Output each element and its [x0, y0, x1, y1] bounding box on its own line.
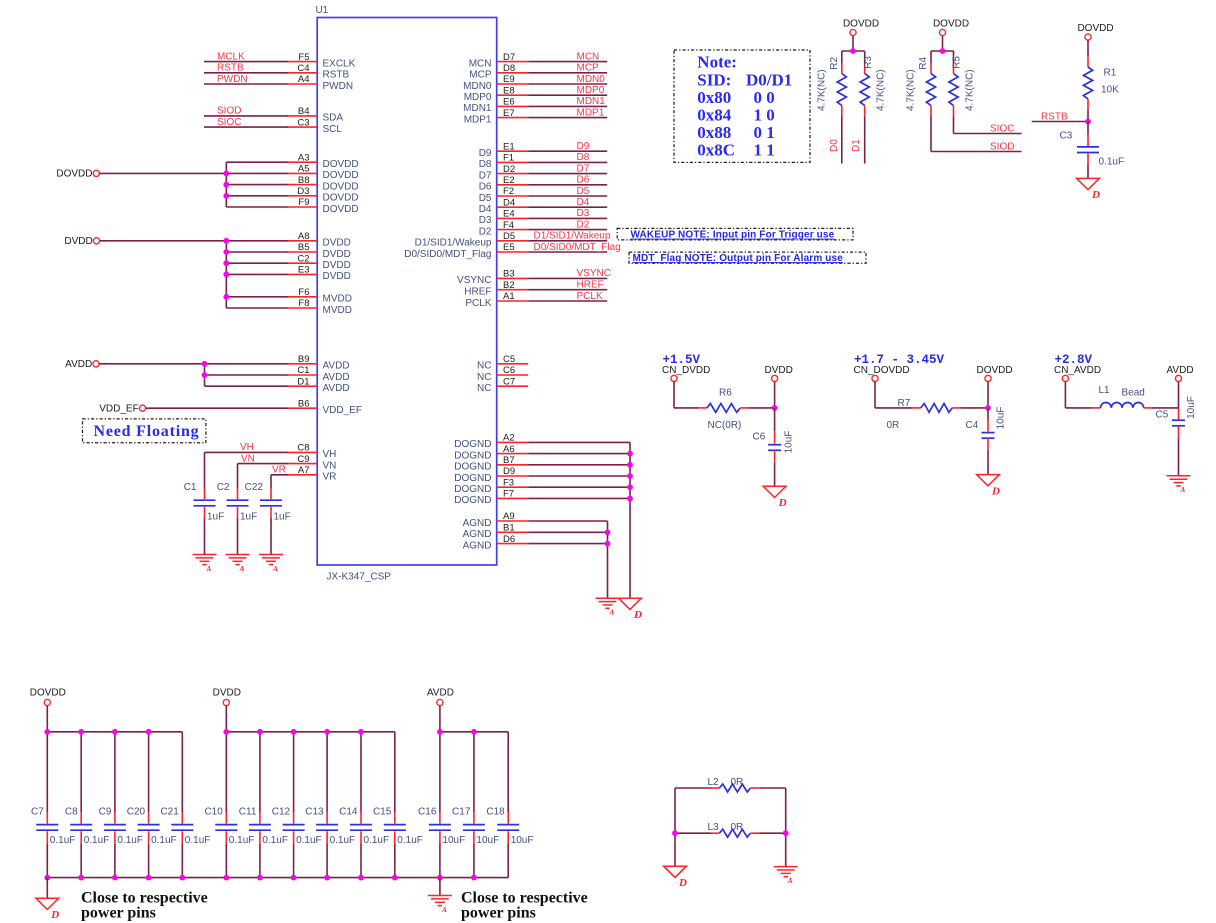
svg-text:0R: 0R — [887, 420, 900, 431]
svg-text:C8: C8 — [65, 807, 78, 818]
junction DOGND — [627, 462, 633, 468]
svg-text:NC: NC — [477, 361, 491, 372]
power port VDD_EF — [139, 405, 145, 411]
wire DOVDD branch — [226, 195, 288, 197]
svg-text:F3: F3 — [503, 477, 514, 488]
pin A3 DOVDD (left) — [287, 161, 317, 163]
power port DOVDD (left) — [93, 170, 99, 176]
svg-text:C13: C13 — [305, 807, 324, 818]
pin F7 DOGND (right) — [497, 497, 529, 499]
wire DOVDD to R1 — [1087, 40, 1089, 56]
wire CN_DVDD down — [673, 382, 675, 408]
junction DOGND — [627, 473, 633, 479]
junction bank bottom — [179, 875, 185, 881]
junction bank top — [146, 729, 152, 735]
svg-text:A2: A2 — [503, 433, 515, 444]
junction bank bottom — [257, 875, 263, 881]
capacitor C4 10uF — [987, 408, 989, 420]
svg-text:B5: B5 — [298, 242, 310, 253]
junction bank top — [112, 729, 118, 735]
wire + net D2 — [528, 229, 607, 231]
svg-text:E8: E8 — [503, 85, 515, 96]
wire + net PCLK — [528, 300, 607, 302]
capacitor C14 0.1uF — [360, 732, 362, 812]
junction DOVDD — [223, 171, 229, 177]
wire R6 to junction — [740, 407, 749, 409]
resistor R7 0R — [921, 404, 953, 413]
junction R4/R5 — [940, 48, 946, 54]
svg-text:NC(0R): NC(0R) — [708, 420, 742, 431]
pin F3 DOGND (right) — [497, 486, 529, 488]
svg-text:A5: A5 — [298, 164, 310, 175]
pin E5 D0/SID0/MDT_Flag (right) — [497, 251, 529, 253]
svg-text:A: A — [206, 565, 212, 573]
pin C4 RSTB (left) — [287, 72, 317, 74]
svg-text:MDN1: MDN1 — [463, 103, 492, 114]
junction DOGND — [627, 496, 633, 502]
svg-text:DVDD: DVDD — [765, 365, 793, 376]
svg-text:SCL: SCL — [323, 124, 343, 135]
svg-text:D3: D3 — [479, 215, 492, 226]
svg-text:AVDD: AVDD — [323, 372, 350, 383]
pin B9 AVDD (left) — [287, 363, 317, 365]
svg-text:DOVDD: DOVDD — [323, 204, 359, 215]
wire VN down to C2 — [237, 464, 239, 489]
svg-text:VR: VR — [323, 472, 337, 483]
wire + net D7 — [528, 173, 607, 175]
svg-text:D9: D9 — [503, 466, 515, 477]
wire DOVDD branch — [226, 184, 288, 186]
wire DVDD down — [774, 382, 776, 408]
svg-text:D1/SID1/Wakeup: D1/SID1/Wakeup — [415, 238, 492, 249]
wire AVDD branch — [205, 363, 289, 365]
svg-text:1uF: 1uF — [274, 512, 291, 523]
svg-text:E1: E1 — [503, 141, 515, 152]
junction DVDD — [223, 260, 229, 266]
svg-text:SIOC: SIOC — [217, 117, 241, 128]
junction AVDD — [202, 361, 208, 367]
bank bottom rail — [47, 877, 508, 879]
svg-text:D1: D1 — [297, 376, 309, 387]
svg-text:0x8C: 0x8C — [697, 141, 735, 160]
junction L3 left — [672, 830, 678, 836]
svg-text:F1: F1 — [503, 153, 514, 164]
svg-text:RSTB: RSTB — [323, 70, 350, 81]
svg-text:A6: A6 — [503, 444, 515, 455]
wire + net MCP — [528, 72, 607, 74]
svg-text:1uF: 1uF — [240, 512, 257, 523]
svg-text:R1: R1 — [1104, 68, 1117, 79]
svg-text:DOVDD: DOVDD — [1077, 23, 1113, 34]
wire R4 to SIOD — [930, 117, 932, 152]
svg-text:DOVDD: DOVDD — [323, 181, 359, 192]
pin E7 MDP1 (right) — [497, 117, 529, 119]
svg-text:MCN: MCN — [577, 51, 600, 62]
svg-text:C7: C7 — [503, 376, 515, 387]
capacitor C10 0.1uF — [225, 732, 227, 812]
resistor R6 NC(0R) — [707, 404, 741, 413]
svg-text:E4: E4 — [503, 209, 515, 220]
svg-text:0x88: 0x88 — [697, 123, 731, 142]
wire L1 to corner — [1144, 407, 1152, 409]
junction bank top — [257, 729, 263, 735]
svg-text:C17: C17 — [452, 807, 471, 818]
capacitor C20 0.1uF — [148, 732, 150, 812]
svg-text:DVDD: DVDD — [323, 249, 351, 260]
svg-text:D8: D8 — [479, 159, 492, 170]
pin D3 DOVDD (left) — [287, 195, 317, 197]
svg-text:C22: C22 — [245, 482, 264, 493]
svg-text:VDD_EF: VDD_EF — [323, 405, 362, 416]
svg-text:D2: D2 — [479, 226, 492, 237]
capacitor C9 0.1uF — [114, 732, 116, 812]
pin C6 NC (right) — [497, 374, 529, 376]
svg-text:A1: A1 — [503, 291, 515, 302]
svg-text:SIOD: SIOD — [990, 141, 1014, 152]
svg-text:PWDN: PWDN — [217, 74, 248, 85]
junction bank top — [44, 729, 50, 735]
svg-text:0.1uF: 0.1uF — [151, 835, 177, 846]
svg-text:DOGND: DOGND — [454, 495, 491, 506]
pin C9 VN (left) — [287, 463, 317, 465]
svg-text:DOVDD: DOVDD — [323, 193, 359, 204]
svg-text:C3: C3 — [297, 117, 309, 128]
R4/R5 top bar — [931, 50, 954, 52]
pin E3 DVDD (left) — [287, 273, 317, 275]
pin B4 SDA (left) — [287, 115, 317, 117]
svg-text:0.1uF: 0.1uF — [330, 835, 356, 846]
pin E1 D9 (right) — [497, 150, 529, 152]
svg-text:VH: VH — [323, 449, 337, 460]
svg-text:D2: D2 — [577, 219, 590, 230]
wire to R6 — [674, 407, 698, 409]
svg-text:B3: B3 — [503, 269, 515, 280]
wire DVDD branch — [226, 296, 288, 298]
svg-text:DOGND: DOGND — [454, 450, 491, 461]
svg-text:R5: R5 — [952, 56, 963, 69]
junction R6/DVDD/C6 — [772, 405, 778, 411]
svg-text:A: A — [441, 906, 447, 914]
analog ground (AGND) — [596, 597, 620, 599]
svg-text:10K: 10K — [1101, 85, 1119, 96]
svg-text:U1: U1 — [316, 5, 329, 16]
wire CN_AVDD down — [1064, 382, 1066, 408]
svg-text:E2: E2 — [503, 175, 515, 186]
svg-text:D2: D2 — [503, 164, 515, 175]
svg-text:1 0: 1 0 — [754, 106, 775, 125]
svg-text:DOGND: DOGND — [454, 484, 491, 495]
svg-text:NC: NC — [477, 372, 491, 383]
svg-text:D5: D5 — [503, 231, 515, 242]
svg-text:0.1uF: 0.1uF — [229, 835, 255, 846]
svg-text:F6: F6 — [298, 287, 309, 298]
svg-text:WAKEUP NOTE: Input pin For Tri: WAKEUP NOTE: Input pin For Trigger use — [631, 230, 835, 241]
svg-text:AGND: AGND — [463, 529, 492, 540]
DVDD vertical bus — [225, 241, 227, 308]
junction DVDD — [223, 294, 229, 300]
svg-text:F9: F9 — [298, 197, 309, 208]
svg-text:VH: VH — [240, 442, 254, 453]
wire DOVDD to R2/R3 bar — [852, 36, 854, 51]
svg-text:AVDD: AVDD — [323, 361, 350, 372]
junction bank top — [223, 729, 229, 735]
wire + net MDP0 — [528, 94, 607, 96]
pin C3 SCL (left) — [287, 126, 317, 128]
svg-text:1 1: 1 1 — [754, 141, 775, 160]
svg-text:E9: E9 — [503, 74, 515, 85]
svg-text:VSYNC: VSYNC — [577, 268, 611, 279]
wire AVDD port to bus — [99, 363, 204, 365]
svg-text:CN_AVDD: CN_AVDD — [1054, 365, 1101, 376]
wire L2 left — [675, 787, 711, 789]
svg-text:C6: C6 — [753, 432, 766, 443]
svg-text:D9: D9 — [577, 141, 590, 152]
svg-text:MDP1: MDP1 — [577, 107, 605, 118]
power port AVDD (left) — [93, 361, 99, 367]
svg-text:10uF: 10uF — [476, 835, 499, 846]
svg-text:10uF: 10uF — [1186, 396, 1197, 419]
svg-text:SIOD: SIOD — [217, 106, 241, 117]
junction R2/R3 — [850, 48, 856, 54]
svg-text:A: A — [1180, 486, 1186, 494]
junction DOVDD — [223, 193, 229, 199]
DVDD bank top rail — [226, 731, 394, 733]
pin F2 D5 (right) — [497, 195, 529, 197]
svg-text:D: D — [50, 909, 59, 921]
svg-text:0.1uF: 0.1uF — [364, 835, 390, 846]
svg-text:C2: C2 — [297, 253, 309, 264]
svg-text:MDP0: MDP0 — [464, 92, 492, 103]
svg-text:4.7K(NC): 4.7K(NC) — [876, 69, 887, 111]
svg-text:R4: R4 — [918, 56, 929, 69]
junction bank bottom — [471, 875, 477, 881]
wire VDD_EF — [146, 407, 289, 409]
svg-text:4.7K(NC): 4.7K(NC) — [817, 69, 828, 111]
svg-text:DVDD: DVDD — [323, 238, 351, 249]
junction bank bottom — [437, 875, 443, 881]
pin F8 MVDD (left) — [287, 307, 317, 309]
svg-text:4.7K(NC): 4.7K(NC) — [906, 69, 917, 111]
svg-text:C9: C9 — [297, 454, 309, 465]
pin E4 D3 (right) — [497, 217, 529, 219]
wire DVDD down to rail — [225, 706, 227, 732]
svg-text:B4: B4 — [298, 106, 310, 117]
pin B8 DOVDD (left) — [287, 184, 317, 186]
junction DVDD — [223, 272, 229, 278]
wire net RSTB — [1032, 121, 1088, 123]
pin F5 EXCLK (left) — [287, 61, 317, 63]
svg-text:AVDD: AVDD — [427, 687, 454, 698]
capacitor C3 0.1uF — [1087, 122, 1089, 135]
wire + net D9 — [528, 150, 607, 152]
pin E6 MDN1 (right) — [497, 105, 529, 107]
capacitor C16 10uF — [439, 732, 441, 812]
wire + net MCN — [528, 61, 607, 63]
svg-text:C5: C5 — [503, 354, 515, 365]
svg-text:DOVDD: DOVDD — [977, 365, 1013, 376]
wire to analog ground — [237, 518, 239, 555]
wire DOVDD down — [987, 382, 989, 408]
svg-text:D: D — [991, 485, 1000, 497]
junction bank bottom — [146, 875, 152, 881]
wire DOVDD down to rail — [46, 706, 48, 732]
pin A2 DOGND (right) — [497, 441, 529, 443]
svg-text:B7: B7 — [503, 455, 515, 466]
svg-text:DOVDD: DOVDD — [56, 169, 92, 180]
pin D6 AGND (right) — [497, 543, 529, 545]
digital ground (C6) — [763, 486, 786, 497]
svg-text:D4: D4 — [503, 197, 515, 208]
svg-text:R6: R6 — [719, 387, 732, 398]
pin D4 D4 (right) — [497, 206, 529, 208]
svg-text:0 1: 0 1 — [754, 123, 775, 142]
svg-text:D0/D1: D0/D1 — [746, 70, 792, 89]
pin B6 VDD_EF (left) — [287, 407, 317, 409]
pin C7 NC (right) — [497, 385, 529, 387]
DOGND wires to bus — [528, 441, 630, 443]
svg-text:0.1uF: 0.1uF — [84, 835, 110, 846]
pin A5 DOVDD (left) — [287, 172, 317, 174]
svg-text:VDD_EF: VDD_EF — [99, 403, 138, 414]
svg-text:CN_DOVDD: CN_DOVDD — [854, 365, 910, 376]
wire CN_DOVDD down — [874, 382, 876, 408]
svg-text:power pins: power pins — [461, 905, 536, 922]
svg-text:DOGND: DOGND — [454, 462, 491, 473]
svg-text:B2: B2 — [503, 280, 515, 291]
op-amp U1 body JX-K347_CSP — [317, 18, 497, 566]
wire + net D6 — [528, 184, 607, 186]
pin D7 MCN (right) — [497, 61, 529, 63]
wire to L1 — [1065, 407, 1091, 409]
wire C6 to ground — [774, 463, 776, 487]
resistor L2 0R — [719, 784, 750, 792]
capacitor C6 10uF — [774, 408, 776, 431]
junction DOGND — [627, 484, 633, 490]
pin D8 MCP (right) — [497, 72, 529, 74]
svg-text:MDP0: MDP0 — [577, 85, 605, 96]
svg-text:B6: B6 — [298, 398, 310, 409]
wire R5 to SIOC — [953, 117, 955, 134]
digital ground (DOGND) — [619, 598, 642, 609]
svg-text:0R: 0R — [731, 777, 744, 788]
svg-text:DVDD: DVDD — [64, 236, 92, 247]
svg-text:MCP: MCP — [577, 63, 600, 74]
svg-text:0.1uF: 0.1uF — [397, 835, 423, 846]
wire + net PWDN — [204, 83, 288, 85]
svg-text:MCP: MCP — [469, 70, 492, 81]
svg-text:C1: C1 — [184, 482, 197, 493]
wire AVDD down — [1178, 382, 1180, 408]
right vertical (L2/L3) — [785, 788, 787, 867]
pin A4 PWDN (left) — [287, 83, 317, 85]
svg-text:MDP1: MDP1 — [464, 114, 492, 125]
wire + net D8 — [528, 161, 607, 163]
DOVDD bank top rail — [47, 731, 182, 733]
svg-text:MDT_Flag NOTE: Output pin For: MDT_Flag NOTE: Output pin For Alarm use — [633, 253, 844, 264]
pin A6 DOGND (right) — [497, 453, 529, 455]
svg-text:Note:: Note: — [697, 53, 737, 72]
junction DVDD — [223, 249, 229, 255]
svg-text:C4: C4 — [966, 420, 979, 431]
pin B3 VSYNC (right) — [497, 277, 529, 279]
pin A7 VR (left) — [287, 474, 317, 476]
AGND vertical bus — [607, 521, 609, 598]
svg-text:AVDD: AVDD — [323, 383, 350, 394]
resistor R5 4.7K(NC) — [953, 51, 955, 63]
junction RSTB/R1/C3 — [1085, 119, 1091, 125]
svg-text:R7: R7 — [898, 398, 911, 409]
pin A8 DVDD (left) — [287, 240, 317, 242]
wire DOVDD port to bus — [99, 172, 226, 174]
svg-text:4.7K(NC): 4.7K(NC) — [965, 69, 976, 111]
svg-text:C4: C4 — [297, 63, 309, 74]
digital ground (L2/L3) — [664, 866, 687, 877]
AGND wires to bus — [528, 520, 607, 522]
wire DVDD branch — [226, 273, 288, 275]
svg-text:F5: F5 — [298, 52, 309, 63]
svg-text:D7: D7 — [577, 163, 590, 174]
pin E9 MDN0 (right) — [497, 83, 529, 85]
svg-text:Bead: Bead — [1122, 388, 1145, 399]
svg-text:C6: C6 — [503, 365, 515, 376]
wire R7 to junction — [952, 407, 961, 409]
svg-text:0.1uF: 0.1uF — [1099, 157, 1125, 168]
svg-text:C18: C18 — [486, 807, 505, 818]
pin E8 MDP0 (right) — [497, 94, 529, 96]
pin E2 D6 (right) — [497, 184, 529, 186]
capacitor C8 0.1uF — [80, 732, 82, 812]
capacitor C17 10uF — [473, 732, 475, 812]
wire to analog ground — [270, 518, 272, 555]
wire DVDD branch — [226, 262, 288, 264]
svg-text:F2: F2 — [503, 186, 514, 197]
svg-text:D6: D6 — [577, 175, 590, 186]
capacitor C18 10uF — [507, 732, 509, 812]
digital ground (bank) — [36, 898, 59, 909]
svg-text:C3: C3 — [1060, 131, 1073, 142]
svg-text:power pins: power pins — [81, 905, 156, 922]
svg-text:DVDD: DVDD — [213, 687, 241, 698]
svg-text:C21: C21 — [160, 807, 179, 818]
junction bank bottom — [112, 875, 118, 881]
wire DOVDD branch — [226, 161, 288, 163]
wire + net HREF — [528, 289, 607, 291]
svg-text:10uF: 10uF — [442, 835, 465, 846]
wire + net D0/SID0/MDT_Flag — [528, 251, 607, 253]
svg-text:0.1uF: 0.1uF — [117, 835, 143, 846]
wire to R7 — [875, 407, 912, 409]
svg-text:CN_DVDD: CN_DVDD — [662, 365, 710, 376]
svg-text:B8: B8 — [298, 175, 310, 186]
wire AVDD down to rail — [439, 706, 441, 732]
svg-text:C16: C16 — [418, 807, 437, 818]
svg-text:A3: A3 — [298, 152, 310, 163]
svg-text:HREF: HREF — [464, 287, 491, 298]
svg-text:0.1uF: 0.1uF — [262, 835, 288, 846]
analog ground — [193, 554, 217, 556]
svg-text:Need Floating: Need Floating — [94, 423, 200, 440]
analog ground — [226, 554, 250, 556]
svg-text:PWDN: PWDN — [323, 81, 354, 92]
svg-text:D0/SID0/MDT_Flag: D0/SID0/MDT_Flag — [534, 242, 621, 253]
svg-text:D1/SID1/Wakeup: D1/SID1/Wakeup — [534, 231, 611, 242]
pin B5 DVDD (left) — [287, 251, 317, 253]
svg-text:D8: D8 — [503, 63, 515, 74]
junction AGND — [605, 541, 611, 547]
svg-text:MVDD: MVDD — [323, 305, 352, 316]
svg-text:F4: F4 — [503, 220, 514, 231]
junction bank top — [471, 729, 477, 735]
